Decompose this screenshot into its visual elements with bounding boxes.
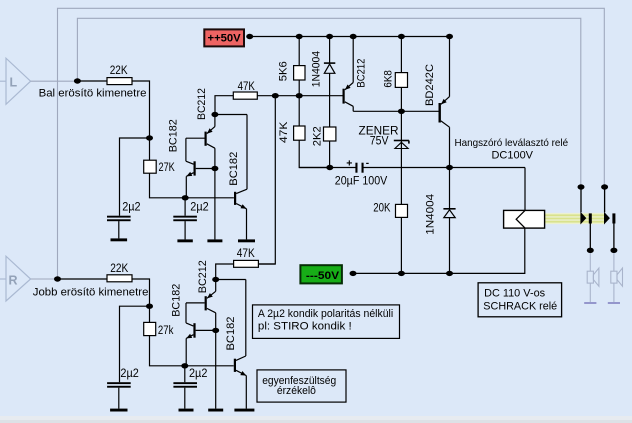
svg-text:BC182: BC182 [170,284,182,317]
svg-text:6K8: 6K8 [383,70,395,88]
svg-text:---50V: ---50V [306,270,340,282]
svg-text:20µF 100V: 20µF 100V [335,173,388,187]
svg-text:BC182: BC182 [225,317,237,351]
svg-text:27k: 27k [158,323,174,337]
svg-text:2µ2: 2µ2 [120,366,139,380]
svg-text:2K2: 2K2 [311,126,323,146]
svg-text:BC212: BC212 [197,260,209,293]
svg-text:2µ2: 2µ2 [189,366,208,380]
svg-text:DC 110 V-os: DC 110 V-os [484,288,546,300]
svg-text:Jobb erösítö kimenetre: Jobb erösítö kimenetre [33,286,149,298]
svg-text:SCHRACK relé: SCHRACK relé [483,301,557,313]
svg-text:75V: 75V [370,134,389,148]
svg-text:1N4004: 1N4004 [310,51,322,87]
svg-text:2µ2: 2µ2 [190,200,209,214]
svg-text:BD242C: BD242C [424,64,436,106]
svg-text:BC182: BC182 [167,119,179,152]
svg-text:Hangszóró leválasztó relé: Hangszóró leválasztó relé [455,138,569,149]
svg-text:5K6: 5K6 [277,61,289,81]
svg-text:A 2µ2 kondik polaritás nélküli: A 2µ2 kondik polaritás nélküli [258,308,393,320]
svg-text:BC212: BC212 [356,59,368,88]
svg-text:27K: 27K [159,160,176,174]
svg-text:47K: 47K [238,79,256,93]
svg-text:BC212: BC212 [196,88,208,120]
svg-text:BC182: BC182 [228,152,240,186]
svg-text:-: - [366,158,369,169]
svg-text:1N4004: 1N4004 [425,194,437,235]
svg-text:pl: STIRO kondik !: pl: STIRO kondik ! [258,321,352,333]
svg-text:+: + [346,158,352,170]
svg-text:47K: 47K [278,121,290,143]
svg-text:L: L [10,76,18,90]
svg-text:20K: 20K [373,201,391,215]
svg-text:Bal erösítö kimenetre: Bal erösítö kimenetre [39,87,147,99]
svg-text:++50V: ++50V [208,32,242,44]
svg-text:22K: 22K [110,261,129,275]
svg-text:2µ2: 2µ2 [122,200,141,214]
svg-text:47K: 47K [237,246,256,260]
svg-text:R: R [9,273,18,287]
svg-text:érzékelô: érzékelô [277,385,316,397]
svg-text:DC100V: DC100V [492,149,534,161]
svg-text:22K: 22K [110,63,129,77]
